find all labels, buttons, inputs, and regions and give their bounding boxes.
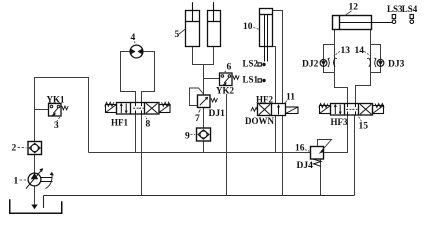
svg-text:14: 14 — [355, 46, 365, 56]
wire cyl12 right port to HF3 B — [356, 30, 371, 104]
label 9 — [185, 132, 195, 142]
wire pressure rail — [89, 152, 311, 154]
label 10 — [243, 22, 259, 32]
svg-text:LS2: LS2 — [243, 59, 259, 69]
motor 14 DJ3 — [367, 58, 384, 67]
svg-text:8: 8 — [146, 120, 151, 130]
label 7 — [195, 110, 200, 125]
wire rail DJ4 to HF3 P port — [324, 115, 348, 153]
label 6 — [223, 63, 232, 74]
motor 13 DJ2 — [320, 58, 337, 67]
label 16 — [295, 144, 310, 154]
label 15 — [359, 117, 369, 132]
svg-text:7: 7 — [195, 114, 200, 124]
pressure switch YK2 — [220, 73, 240, 86]
svg-text:DOWN: DOWN — [245, 116, 275, 126]
wire motor4 loop left to HF1 A — [121, 52, 136, 103]
label 11 — [285, 93, 295, 104]
wire YK2 branch — [204, 78, 220, 80]
svg-text:6: 6 — [227, 63, 232, 73]
wire cyl10 top port to valve11 — [273, 11, 283, 104]
wire valve11 P drop — [275, 116, 277, 153]
svg-text:DJ2: DJ2 — [302, 60, 319, 70]
wire cylinders5 junction — [193, 47, 214, 65]
wire tank return drop — [43, 196, 45, 209]
cylinder 12 — [333, 16, 393, 30]
wire junction to valve7 — [203, 65, 205, 96]
svg-text:HF1: HF1 — [111, 118, 128, 128]
wire valve7 to comp9 — [203, 108, 205, 129]
label 2 — [12, 144, 27, 154]
pressure switch YK1 — [49, 104, 69, 117]
svg-text:1: 1 — [14, 177, 19, 187]
label 13 — [334, 46, 350, 56]
motor 4 — [130, 45, 143, 58]
svg-text:9: 9 — [185, 132, 190, 142]
check/filter component 2 — [28, 142, 42, 155]
relief valve 7 — [190, 88, 218, 108]
cylinder 10 — [260, 9, 273, 62]
svg-text:13: 13 — [341, 46, 351, 56]
wire pump suction into tank — [34, 186, 36, 205]
cylinder 5a — [186, 2, 200, 46]
wire comp2 to pump — [34, 155, 36, 174]
svg-text:HF3: HF3 — [331, 117, 348, 127]
label 5 — [175, 29, 187, 41]
wire YK2 drop to tank rail — [226, 94, 228, 196]
svg-text:3: 3 — [54, 121, 59, 131]
svg-text:YK1: YK1 — [47, 94, 66, 104]
wire bottom tank rail — [44, 195, 355, 197]
svg-text:DJ1: DJ1 — [209, 109, 226, 119]
wire YK1 branch — [35, 109, 49, 111]
svg-text:DJ3: DJ3 — [388, 60, 405, 70]
svg-text:12: 12 — [349, 3, 359, 13]
label 14 — [355, 46, 371, 56]
svg-text:HF2: HF2 — [256, 94, 273, 104]
directional valve 11 HF2 — [251, 104, 298, 116]
svg-text:10: 10 — [243, 22, 253, 32]
pump P1 — [26, 169, 54, 189]
wire motor14 loop — [371, 45, 381, 73]
label 1 — [14, 177, 27, 187]
limit switch LS3 — [387, 4, 403, 24]
svg-text:2: 2 — [12, 144, 17, 154]
limit switch LS2 — [243, 59, 266, 69]
limit switch LS4 — [402, 4, 418, 24]
svg-text:LS1: LS1 — [243, 75, 259, 85]
tank — [10, 199, 62, 213]
label 3 — [54, 117, 60, 131]
svg-text:LS3: LS3 — [387, 4, 403, 14]
wire HF3 T riser — [354, 115, 356, 196]
label 8 — [145, 116, 150, 129]
wire cyl12 left port to HF3 A — [335, 30, 348, 104]
wire HF1 T drop — [141, 114, 143, 196]
label 12 — [345, 3, 358, 16]
unloading valve 16 DJ4 — [311, 140, 332, 167]
directional valve HF1 — [105, 102, 171, 114]
svg-text:YK2: YK2 — [216, 86, 235, 96]
wire pump riser to rail corner — [35, 78, 89, 153]
svg-text:DJ4: DJ4 — [297, 161, 314, 171]
svg-text:11: 11 — [286, 93, 295, 103]
check valve 9 — [197, 128, 211, 141]
svg-text:15: 15 — [359, 122, 369, 132]
directional valve HF3 — [319, 104, 384, 116]
wire motor13 loop — [324, 45, 335, 73]
limit switch LS1 — [243, 75, 266, 85]
wire cyl10 bottom port to valve11 — [273, 47, 276, 104]
wire DJ4 drain drop — [320, 159, 322, 196]
wire HF1 P drop — [135, 114, 137, 153]
wire valve11 T drop — [282, 116, 284, 196]
wire motor4 loop right to HF1 B — [142, 52, 155, 103]
label 4 — [131, 33, 137, 45]
svg-text:5: 5 — [175, 30, 180, 40]
wire comp9 to rail — [203, 141, 205, 153]
cylinder 5b — [208, 2, 221, 46]
svg-text:16: 16 — [295, 144, 305, 154]
tank inlet arrow — [31, 205, 37, 210]
svg-text:LS4: LS4 — [402, 4, 418, 14]
